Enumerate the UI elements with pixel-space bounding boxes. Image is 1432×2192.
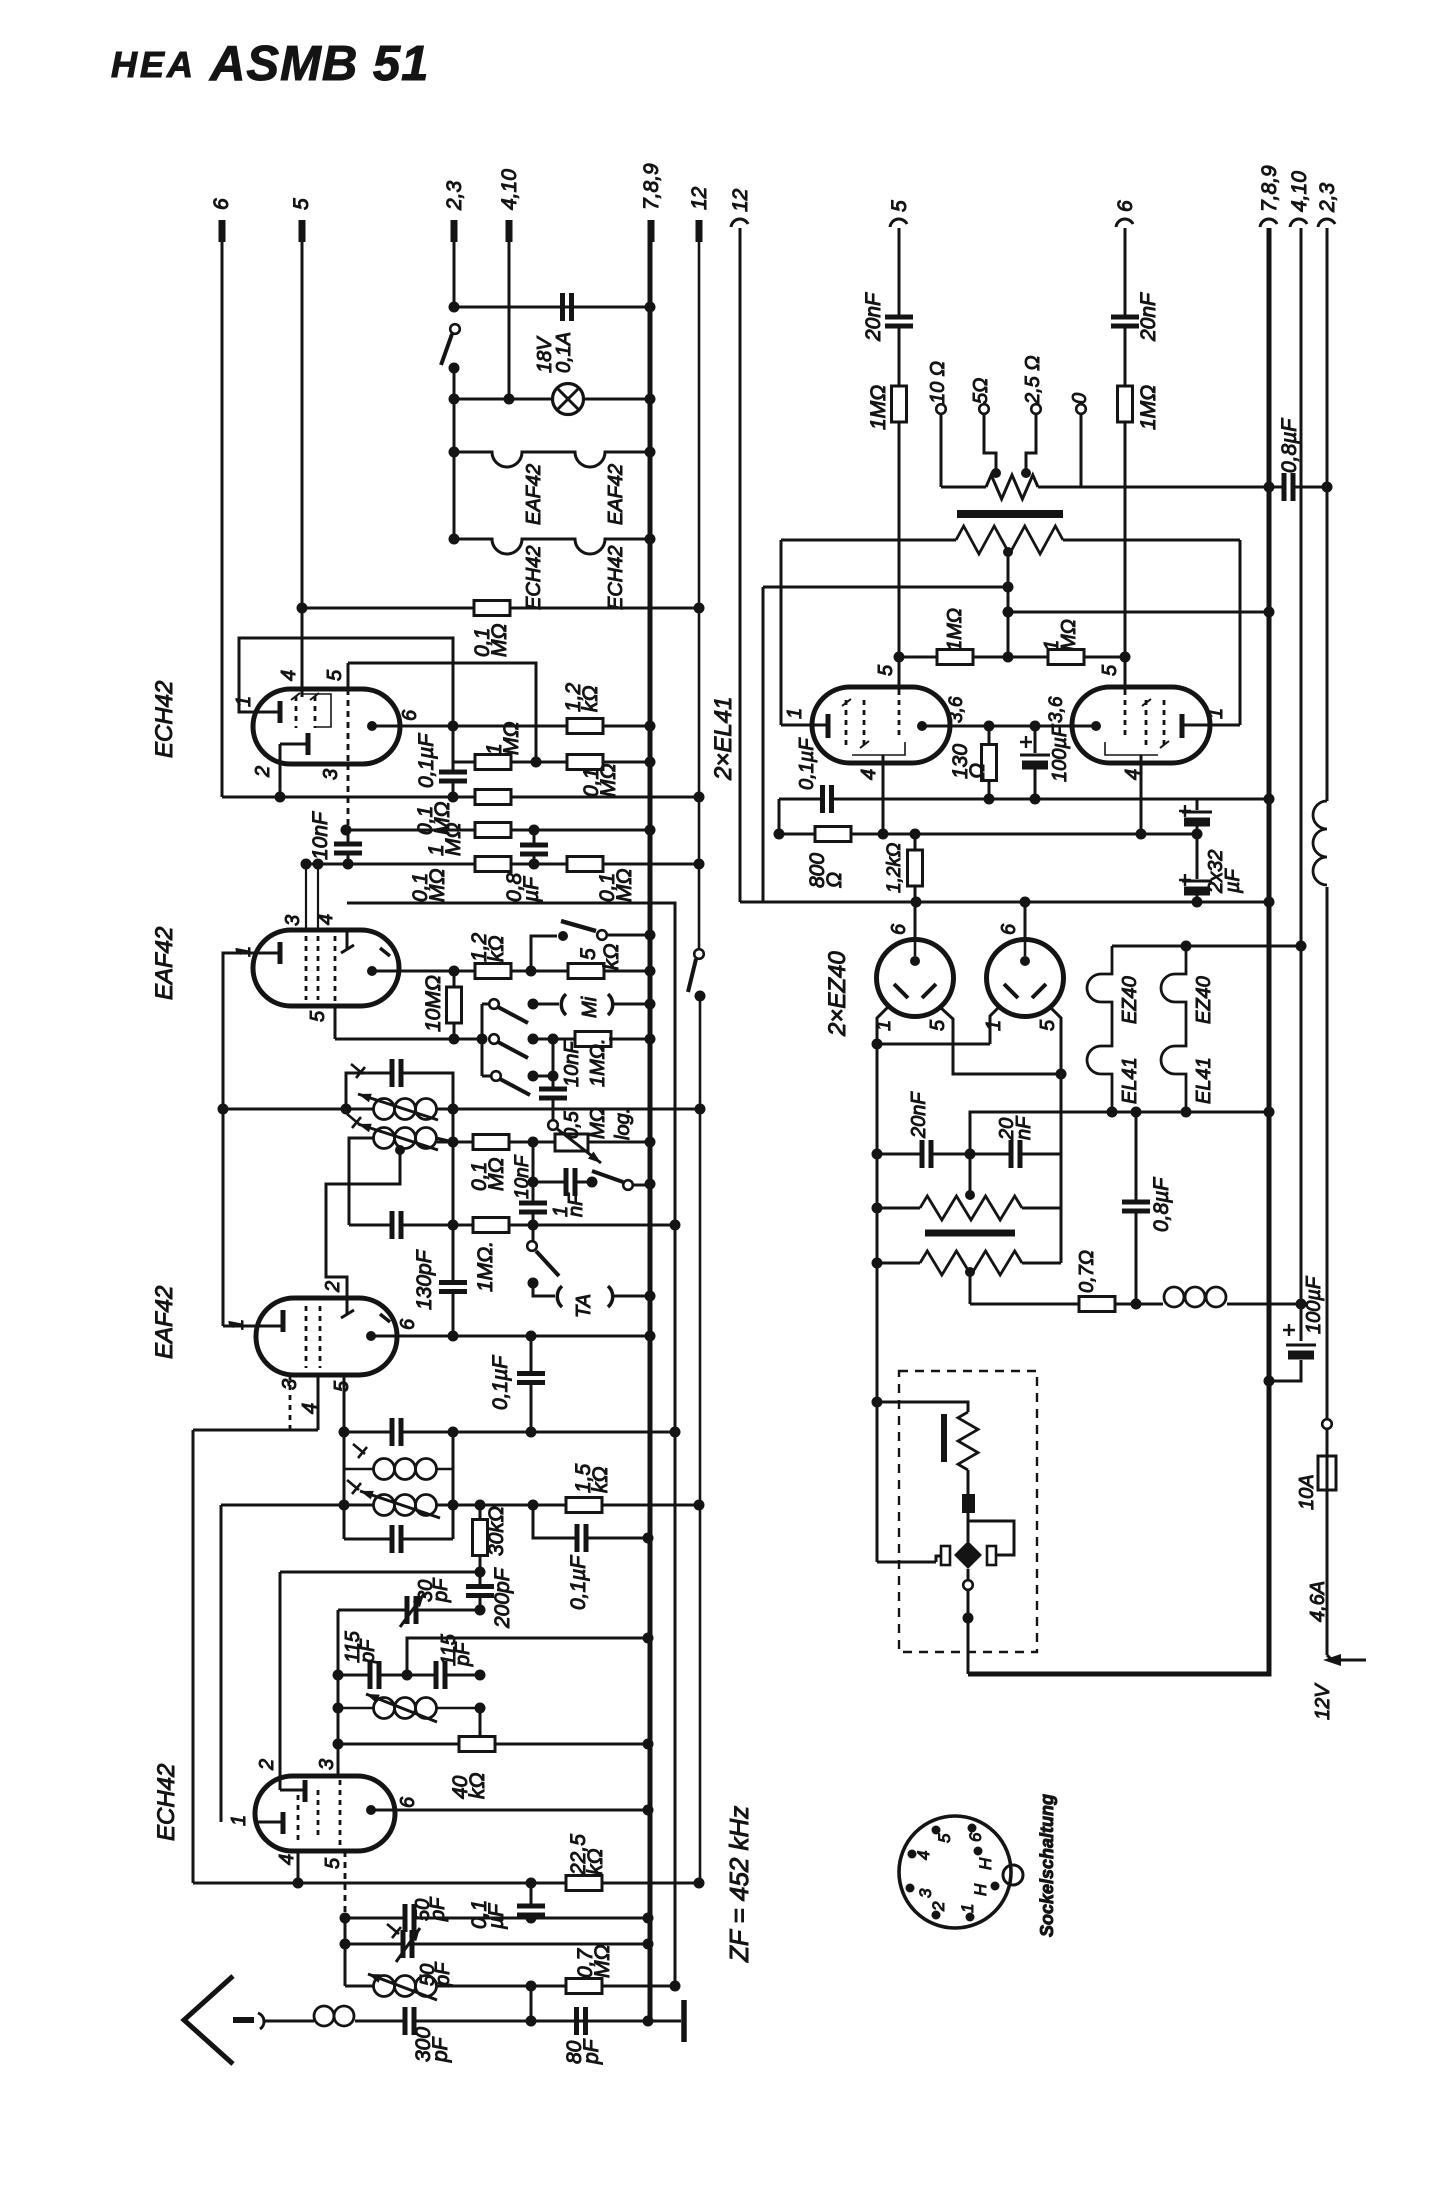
svg-text:4,10: 4,10 — [498, 169, 521, 210]
svg-text:5: 5 — [1037, 1019, 1059, 1031]
svg-text:0: 0 — [1069, 393, 1091, 404]
svg-text:10nF: 10nF — [561, 1040, 583, 1087]
svg-text:TA: TA — [573, 1294, 595, 1318]
svg-text:EL41: EL41 — [1119, 1057, 1141, 1104]
capacitor 20nF (x899) — [885, 317, 913, 326]
V1 anode — [367, 721, 377, 731]
IFT2 secondary coil — [374, 1128, 395, 1149]
svg-text:2,3: 2,3 — [1316, 182, 1339, 213]
V6 pin1 rail — [1239, 540, 1242, 725]
anode row y726 — [922, 725, 1096, 728]
filter choke — [1164, 1287, 1184, 1307]
V4 triode cathode top — [280, 1776, 305, 1790]
capacitor (lamp bypass) — [563, 293, 572, 321]
svg-text:5: 5 — [331, 1380, 353, 1392]
svg-text:5: 5 — [888, 200, 911, 212]
terminal 7,8,9 (right) — [1260, 219, 1277, 227]
svg-text:EAF42: EAF42 — [151, 1286, 178, 1359]
terminal 6 (left) — [219, 220, 226, 242]
OPT wiper tap — [1003, 547, 1013, 557]
svg-text:ZF = 452 kHz: ZF = 452 kHz — [724, 1806, 754, 1963]
svg-text:HEA: HEA — [111, 44, 196, 85]
svg-text:EAF42: EAF42 — [523, 464, 545, 525]
resistor 1 MOhm grid R — [1048, 650, 1084, 665]
wire row y608 — [302, 607, 699, 610]
V7 pin5 leg — [941, 1008, 1061, 1074]
bus 7,8,9 left (x650) — [648, 220, 653, 2021]
V1 pin2 lead — [279, 744, 282, 797]
V2 pin1 lead to x223 — [223, 953, 253, 1326]
V2 grid dashes — [305, 936, 308, 1000]
V5 pin4 lead — [882, 755, 885, 834]
svg-text:1: 1 — [983, 1020, 1005, 1031]
terminal 5 (left) — [299, 220, 306, 242]
terminal 0 — [1076, 404, 1086, 414]
row y762 (1M / 0,1M) — [453, 761, 650, 764]
pickup TA jack arcs — [557, 1286, 562, 1307]
tube EL41 V6 envelope — [1072, 687, 1210, 763]
svg-text:ECH42: ECH42 — [523, 546, 545, 610]
terminal 5 (right) — [890, 219, 907, 227]
V4 anode row y1810 — [371, 1809, 648, 1812]
terminal 4,10 (right) — [1290, 219, 1307, 227]
resistor 30 kOhm — [479, 1505, 482, 1572]
row y1572 to V4 grid — [280, 1571, 480, 1574]
svg-text:µF: µF — [1222, 867, 1244, 894]
svg-text:2: 2 — [256, 1759, 278, 1771]
svg-text:nF: nF — [565, 1192, 587, 1217]
svg-text:0,8µF: 0,8µF — [1150, 1177, 1173, 1232]
row y902 — [740, 901, 1269, 904]
socket diagram circle — [899, 1816, 1011, 1928]
svg-text:1MΩ: 1MΩ — [867, 385, 890, 430]
V3 grid dashes — [305, 1306, 308, 1368]
svg-text:4: 4 — [278, 670, 300, 681]
svg-text:6: 6 — [397, 1318, 419, 1330]
IFT2 primary coil — [374, 1099, 395, 1120]
svg-text:0,1µF: 0,1µF — [415, 733, 438, 788]
V2 diode plate — [380, 948, 390, 956]
V5 anode — [917, 721, 927, 731]
row y797 — [222, 796, 699, 799]
heater chain row1 ECH42/EAF42 — [454, 452, 650, 467]
svg-text:0,1µF: 0,1µF — [567, 1555, 590, 1610]
oscillator coil — [374, 1698, 395, 1719]
svg-text:6: 6 — [1114, 200, 1137, 212]
svg-text:2: 2 — [252, 766, 274, 778]
svg-text:kΩ: kΩ — [485, 936, 508, 963]
resistor 800 Ohm — [815, 827, 851, 842]
resistor 1 MOhm rowB — [575, 1032, 611, 1047]
wire lamp row y399 — [454, 398, 650, 401]
electrolytic 2x32uF B — [1196, 834, 1199, 902]
capacitor 10nF (row1142 down) — [532, 1142, 535, 1225]
svg-text:1MΩ: 1MΩ — [944, 608, 966, 651]
svg-text:µF: µF — [520, 876, 543, 903]
svg-text:kΩ: kΩ — [579, 686, 602, 713]
svg-text:pF: pF — [429, 2036, 452, 2063]
tube EZ40 V8 — [1024, 902, 1027, 940]
bus 12 connector line (x740) — [739, 228, 742, 902]
IFT3 coil1 — [374, 1459, 395, 1480]
IFT3 top row — [344, 1431, 675, 1434]
svg-text:5: 5 — [307, 1010, 329, 1022]
row y830 — [346, 829, 650, 832]
V3 grid hook — [341, 1298, 354, 1318]
row y1109 — [223, 1108, 700, 1111]
capacitor 100uF — [1034, 726, 1037, 799]
1nF row + switch — [533, 1181, 592, 1184]
switch (mains) on 2,3 — [450, 324, 460, 334]
anode row y726 — [372, 725, 650, 728]
pins 3/4 of V2 from row864 — [305, 864, 307, 930]
svg-text:4: 4 — [914, 1851, 933, 1860]
capacitor 20nF L — [922, 1140, 931, 1168]
svg-text:EL41: EL41 — [1193, 1057, 1215, 1104]
svg-text:kΩ: kΩ — [589, 1467, 612, 1494]
V6 grid dashes — [1145, 700, 1148, 750]
svg-text:0,5: 0,5 — [561, 1110, 583, 1139]
bias row y834 — [779, 833, 1197, 836]
svg-text:10MΩ: 10MΩ — [422, 975, 445, 1032]
svg-text:Mi: Mi — [579, 996, 601, 1018]
svg-text:3,6: 3,6 — [946, 696, 967, 723]
svg-text:µF: µF — [485, 1903, 508, 1930]
capacitor 0,1uF — [452, 726, 455, 797]
svg-text:1: 1 — [784, 708, 806, 719]
svg-text:MΩ: MΩ — [591, 1945, 614, 1978]
row y1505 — [221, 1504, 699, 1507]
svg-text:1MΩ.: 1MΩ. — [474, 1241, 497, 1292]
capacitor 200pF — [479, 1572, 482, 1610]
capacitor 20nF R — [1011, 1140, 1020, 1168]
svg-text:1,2kΩ: 1,2kΩ — [884, 843, 905, 893]
heater chain B EZ40/EL41 — [1161, 946, 1186, 1112]
svg-text:pF: pF — [430, 1577, 452, 1603]
svg-text:4: 4 — [858, 769, 880, 780]
svg-text:ASMB 51: ASMB 51 — [209, 37, 429, 91]
antenna coupling coil — [314, 2006, 334, 2026]
svg-text:pF: pF — [357, 1638, 379, 1664]
svg-text:pF: pF — [580, 2038, 603, 2065]
row y903 (grid return) — [347, 903, 675, 1986]
svg-text:6: 6 — [397, 1796, 419, 1808]
V3 diode plate — [380, 1314, 390, 1322]
capacitor 10nF — [347, 830, 350, 864]
tube EAF42 V2 envelope — [253, 930, 399, 1006]
resistor 1 MOhm (x899) — [892, 386, 907, 422]
svg-text:5: 5 — [290, 198, 313, 210]
bus 4,10 left (x509) — [508, 228, 511, 399]
svg-text:12V: 12V — [1312, 1683, 1334, 1720]
svg-text:2,3: 2,3 — [443, 180, 466, 211]
resistor 1,2 kOhm — [567, 719, 603, 734]
switch on line 12 — [694, 949, 704, 959]
svg-text:4: 4 — [276, 1854, 298, 1865]
antenna symbol — [184, 1976, 233, 2064]
svg-text:1: 1 — [1205, 708, 1227, 719]
V1 pin5 top loop — [348, 663, 536, 762]
resistor 40 kOhm — [338, 1743, 648, 1746]
V5 grid dashes — [845, 700, 848, 750]
capacitor 0,1uF bottom — [530, 1883, 533, 1918]
svg-text:0,1A: 0,1A — [553, 332, 575, 373]
heater top row y946 — [1112, 945, 1301, 948]
svg-text:7,8,9: 7,8,9 — [1258, 165, 1281, 212]
V3 pin4 lead — [317, 1375, 320, 1430]
V5 cathode — [826, 714, 831, 738]
vibrator coil core — [941, 1414, 947, 1462]
svg-text:EAF42: EAF42 — [151, 927, 178, 1000]
svg-text:kΩ: kΩ — [584, 1849, 607, 1876]
capacitor 0,8uF — [533, 830, 536, 864]
feedback line y587 — [763, 586, 1008, 589]
pot wiper circle — [548, 1120, 558, 1130]
V6 anode — [1091, 721, 1101, 731]
svg-text:6: 6 — [966, 1832, 985, 1842]
vibrator contact stack — [967, 1470, 970, 1494]
V3 anode row y1336 — [371, 1335, 650, 1338]
capacitor 0,8uF (bus to 2,3) — [1269, 486, 1327, 489]
svg-text:20nF: 20nF — [908, 1091, 930, 1139]
svg-text:12: 12 — [729, 188, 752, 212]
resistor 1 MOhm row830 — [475, 823, 511, 838]
resistor 1,5 kOhm — [566, 1498, 602, 1513]
vibrator coil winding — [958, 1412, 978, 1470]
vibrator reed diamond — [954, 1541, 982, 1569]
V3 pin3 dashed — [289, 1375, 292, 1430]
chassis ground — [648, 2020, 681, 2023]
svg-text:5: 5 — [1099, 664, 1121, 676]
svg-text:0,1µF: 0,1µF — [489, 1355, 512, 1410]
IFT3 loop — [344, 1432, 453, 1539]
speaker core — [925, 1230, 1015, 1237]
capacitor 0,8uF (x1136) — [1135, 1112, 1138, 1304]
resistor 0,7 MOhm — [566, 1979, 602, 1994]
trimmer 30pF row — [338, 1609, 480, 1612]
link to heater row — [970, 1112, 1269, 1154]
svg-text:ECH42: ECH42 — [151, 681, 178, 758]
antenna input row y2021 — [263, 2020, 648, 2023]
row y1142 — [437, 1141, 650, 1144]
IFT2 secondary leads — [349, 1138, 374, 1225]
terminal 12 (left) — [696, 220, 703, 242]
svg-text:3: 3 — [320, 769, 342, 780]
capacitor 80pF — [570, 2020, 575, 2023]
row y1039 — [335, 1038, 482, 1041]
svg-text:H: H — [976, 1857, 995, 1870]
svg-text:10nF: 10nF — [309, 811, 332, 860]
V2 pin5 dashed — [334, 936, 337, 1006]
V5 pin5 dashed — [898, 690, 901, 735]
left frame x193 — [192, 1430, 195, 1883]
svg-text:1MΩ: 1MΩ — [1137, 385, 1160, 430]
bus 4,10 right (x1301) — [1269, 228, 1301, 1381]
capacitor 20nF (x1125) — [1111, 317, 1139, 326]
tube EZ40 V7 — [914, 902, 917, 940]
svg-text:0,7Ω: 0,7Ω — [1076, 1250, 1098, 1293]
IFT2 tap to V3 grid — [395, 1145, 405, 1155]
svg-text:1: 1 — [958, 1904, 977, 1913]
V2 grid hook from row903 — [341, 930, 354, 953]
svg-text:5: 5 — [875, 664, 897, 676]
V4 anode — [366, 1805, 376, 1815]
115pF mid tap to bus — [407, 1638, 648, 1675]
12V arrow terminal — [1327, 1655, 1366, 1660]
V3 anode — [366, 1331, 376, 1341]
terminal 2,5 Ohm — [1031, 404, 1041, 414]
svg-text:EAF42: EAF42 — [605, 464, 627, 525]
svg-text:MΩ: MΩ — [500, 722, 523, 755]
svg-text:pF: pF — [427, 1896, 449, 1922]
svg-text:EZ40: EZ40 — [1193, 976, 1215, 1024]
capacitor 10nF (to pot) — [552, 1039, 555, 1120]
switch row C — [482, 1075, 491, 1078]
V7 pin1 leg — [877, 1007, 888, 1044]
microphone Mi jack arcs — [561, 994, 566, 1015]
resistor 130 Ohm — [988, 726, 991, 799]
resistor 1 MOhm grid L — [937, 650, 973, 665]
svg-text:MΩ: MΩ — [597, 764, 620, 797]
svg-text:MΩ: MΩ — [587, 1107, 609, 1139]
switch row B — [489, 1034, 499, 1044]
svg-text:MΩ: MΩ — [485, 1158, 508, 1191]
svg-text:1: 1 — [226, 1319, 248, 1330]
resistor 1,2 kOhm V2 — [475, 964, 511, 979]
capacitor 0,1uF feedback — [823, 785, 832, 813]
V7/V8 pin1 link — [877, 1007, 999, 1044]
terminal 5 Ohm — [979, 404, 989, 414]
115pF row — [338, 1674, 480, 1677]
resistor 10 MOhm — [453, 971, 456, 1039]
svg-text:MΩ: MΩ — [613, 869, 636, 902]
connector circle — [1322, 1419, 1332, 1429]
V3 pin5 lead — [343, 1375, 346, 1432]
svg-text:20nF: 20nF — [862, 292, 885, 342]
svg-text:4,6A: 4,6A — [1307, 1581, 1329, 1622]
IFT3 coil2 — [374, 1495, 395, 1516]
row y1883 (22,5k screen) — [193, 1882, 699, 1885]
svg-text:5: 5 — [935, 1833, 954, 1843]
speaker 1 winding — [920, 1196, 1022, 1220]
svg-text:6: 6 — [210, 198, 233, 210]
terminal 10 Ohm — [936, 404, 946, 414]
IFT3 bottom row — [344, 1538, 453, 1541]
svg-text:1: 1 — [233, 696, 255, 707]
V6 cathode — [1180, 714, 1185, 738]
left contact lead — [877, 1556, 941, 1562]
svg-text:3: 3 — [916, 1888, 935, 1898]
svg-text:MΩ: MΩ — [1058, 619, 1080, 651]
row y864 — [306, 863, 699, 866]
resistor 0,1 MOhm — [567, 755, 603, 770]
svg-text:EZ40: EZ40 — [1119, 976, 1141, 1024]
resistor 1 MOhm — [475, 755, 511, 770]
svg-text:pF: pF — [452, 1641, 474, 1667]
left frame x221 — [220, 1505, 223, 1822]
svg-text:7,8,9: 7,8,9 — [640, 163, 663, 210]
left feedback rails — [762, 587, 765, 902]
bus 5 right (x899) — [898, 228, 901, 690]
switch row A (Mi) — [482, 1003, 489, 1006]
svg-text:4: 4 — [315, 914, 337, 925]
osc left rail x338 — [337, 1610, 340, 1776]
antenna coil row y1986 — [345, 1985, 675, 1988]
antenna connector arc — [258, 2013, 264, 2029]
terminal 4,10 (left) — [506, 220, 513, 242]
tube EL41 V5 envelope — [812, 687, 950, 763]
svg-text:Ω: Ω — [966, 763, 989, 779]
svg-text:100µF: 100µF — [1049, 723, 1071, 782]
V1 grid pin3/5 dashed — [347, 663, 350, 689]
svg-text:4,10: 4,10 — [1288, 171, 1311, 212]
V1 hexode cathode — [306, 733, 311, 755]
svg-text:2: 2 — [322, 1281, 344, 1293]
vibrator side contacts — [941, 1546, 950, 1565]
tube ECH42 V4 envelope — [255, 1776, 395, 1851]
resistor 1,2 kOhm bias — [914, 834, 917, 902]
svg-text:0,1µF: 0,1µF — [796, 737, 818, 790]
V6 pin4 lead — [1140, 755, 1143, 834]
rail x779 — [778, 799, 781, 834]
tube EAF42 V3 envelope — [256, 1298, 397, 1375]
V4 pin4 lead — [297, 1851, 300, 1883]
row y1944 (50pF trimmer) — [345, 1943, 648, 1946]
row y1225 (AVC) — [349, 1224, 675, 1227]
V1 cathode (triode) — [278, 701, 283, 723]
left rail x877 — [876, 1044, 879, 1562]
svg-text:10 Ω: 10 Ω — [927, 361, 949, 404]
svg-text:5: 5 — [577, 948, 600, 960]
V6 pin5 dashed — [1124, 690, 1127, 735]
svg-text:1MΩ.: 1MΩ. — [587, 1038, 609, 1087]
svg-text:kΩ: kΩ — [600, 944, 623, 971]
svg-text:10nF: 10nF — [512, 1154, 533, 1199]
svg-text:12: 12 — [688, 186, 711, 210]
V1 grid dashes — [295, 696, 298, 728]
lamp 18V 0,1A — [553, 384, 584, 415]
svg-text:5Ω: 5Ω — [970, 378, 992, 404]
terminal 6 (right) — [1116, 219, 1133, 227]
V4 grid dashes — [297, 1795, 300, 1845]
svg-text:3: 3 — [316, 1759, 338, 1770]
vibrator dashed box — [899, 1371, 1037, 1652]
capacitor 130pF — [392, 1211, 401, 1239]
resistor 5 kOhm — [568, 964, 604, 979]
right rail x1061 — [1060, 1154, 1063, 1263]
capacitor 0,1uF (to bus) — [533, 1505, 648, 1538]
svg-text:100µF: 100µF — [1303, 1275, 1325, 1334]
vertical x453 with cap — [452, 1109, 455, 1336]
svg-text:6: 6 — [399, 709, 421, 721]
svg-text:2×EL41: 2×EL41 — [710, 697, 737, 781]
wire cap row y307 — [454, 306, 650, 309]
svg-text:ECH42: ECH42 — [605, 546, 627, 610]
resistor 0,1 MOhm row864 L — [475, 857, 511, 872]
terminal 12 (right) — [731, 219, 748, 227]
svg-text:0,8µF: 0,8µF — [1278, 418, 1301, 473]
svg-text:MΩ: MΩ — [426, 869, 449, 902]
speaker 2 tap — [965, 1267, 975, 1277]
svg-text:2×EZ40: 2×EZ40 — [824, 951, 851, 1037]
OPT primary winding — [956, 526, 1063, 554]
svg-text:Ω: Ω — [823, 872, 846, 888]
V3 cathode — [281, 1310, 286, 1332]
resistor 0,1 MOhm row1142 — [473, 1135, 509, 1150]
reed output — [967, 1569, 970, 1580]
resistor 0,1 MOhm row864 R — [567, 857, 603, 872]
resistor 0,7 Ohm — [1079, 1297, 1115, 1312]
